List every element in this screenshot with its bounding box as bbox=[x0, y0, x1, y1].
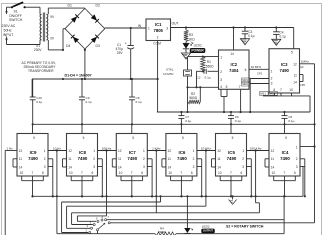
svg-text:2: 2 bbox=[242, 157, 244, 161]
badge POWER bbox=[190, 48, 206, 53]
svg-text:220Ω: 220Ω bbox=[158, 230, 166, 234]
svg-text:CP1: CP1 bbox=[257, 71, 263, 75]
svg-text:5: 5 bbox=[132, 136, 134, 140]
wire 1MHz vertical bbox=[313, 64, 315, 223]
svg-text:INPUT: INPUT bbox=[3, 33, 14, 37]
svg-text:11: 11 bbox=[68, 157, 72, 161]
svg-text:12: 12 bbox=[293, 62, 297, 66]
wire IC4 pin5 supply stub bbox=[284, 124, 286, 133]
ground below C3 bbox=[240, 39, 249, 45]
capacitor C9 0.1u bbox=[79, 78, 92, 124]
capacitor C7 0.1u bbox=[178, 112, 191, 124]
wire R4 to LED2 bbox=[176, 233, 187, 235]
svg-text:2: 2 bbox=[44, 157, 46, 161]
wire IC2 pin2 bbox=[202, 70, 219, 72]
wire C2 to pin3 node bbox=[195, 71, 197, 88]
svg-text:SWITCH: SWITCH bbox=[9, 18, 23, 22]
svg-text:1MHz: 1MHz bbox=[301, 60, 310, 64]
svg-text:10: 10 bbox=[69, 171, 73, 175]
wire IC9 bottom bracket bbox=[22, 176, 44, 197]
diode D3 bbox=[85, 29, 105, 49]
svg-text:D1-D4 = 1N4007: D1-D4 = 1N4007 bbox=[65, 74, 92, 78]
svg-text:C2: C2 bbox=[197, 75, 201, 79]
wire 1 KHz net bbox=[147, 146, 166, 151]
svg-text:10: 10 bbox=[119, 171, 123, 175]
resistor R3 1K bbox=[184, 28, 195, 42]
wire 10 KHz net bbox=[197, 146, 216, 151]
wire IC5 MR pins to rail bbox=[247, 159, 253, 198]
counter IC4 7490 bbox=[269, 134, 300, 177]
ground rail bottom bbox=[31, 195, 303, 197]
svg-text:14: 14 bbox=[293, 80, 297, 84]
wire 1 Hz output bbox=[5, 146, 17, 235]
svg-text:2: 2 bbox=[93, 157, 95, 161]
svg-text:10: 10 bbox=[218, 171, 222, 175]
capacitor C4 0.1u bbox=[273, 28, 286, 40]
resistor R1 560 bbox=[201, 57, 215, 72]
svg-text:230V: 230V bbox=[34, 48, 43, 52]
svg-text:11: 11 bbox=[168, 157, 172, 161]
svg-text:R1: R1 bbox=[207, 60, 211, 64]
wire IC4 MR pins to rail bbox=[300, 159, 306, 198]
wire IC3 MR pins to ground bbox=[249, 79, 269, 114]
svg-text:12: 12 bbox=[68, 149, 72, 153]
svg-text:10: 10 bbox=[20, 171, 24, 175]
wire IC6 MR pins to rail bbox=[197, 159, 203, 198]
wire LED2 ground return bbox=[187, 196, 284, 233]
svg-text:D3: D3 bbox=[96, 44, 100, 48]
wire secondary 9V to bridge bbox=[48, 8, 85, 13]
wire IC4 bottom bracket bbox=[274, 176, 296, 197]
wire bridge DC+ to IC1 bbox=[105, 27, 146, 29]
svg-text:2: 2 bbox=[193, 157, 195, 161]
svg-text:11: 11 bbox=[294, 73, 298, 77]
wire 1kHz tap bbox=[72, 151, 260, 225]
svg-text:10 KHz: 10 KHz bbox=[201, 146, 212, 150]
wire IC2 pins 4,5 to ground bbox=[221, 89, 227, 113]
svg-text:12: 12 bbox=[271, 149, 275, 153]
svg-text:10 MHz: 10 MHz bbox=[251, 65, 262, 69]
wire 100 KHz net bbox=[247, 146, 270, 151]
svg-text:6: 6 bbox=[245, 68, 247, 72]
svg-text:50Hz: 50Hz bbox=[4, 29, 12, 33]
svg-text:0.1µ: 0.1µ bbox=[205, 75, 211, 79]
svg-text:10: 10 bbox=[289, 88, 293, 92]
wire 100Hz tap bbox=[77, 151, 106, 222]
counter IC3 7490 bbox=[269, 49, 300, 93]
wire crystal bottom bbox=[186, 76, 188, 113]
counter IC6 7490 bbox=[166, 134, 197, 177]
svg-text:TRANSFORMER: TRANSFORMER bbox=[28, 69, 54, 73]
svg-text:D1: D1 bbox=[68, 4, 72, 8]
svg-text:IC7: IC7 bbox=[129, 150, 136, 155]
svg-text:7490: 7490 bbox=[280, 156, 290, 161]
svg-text:560Ω: 560Ω bbox=[206, 64, 214, 68]
svg-text:10 Hz: 10 Hz bbox=[53, 146, 62, 150]
node 230V AC input bbox=[2, 7, 16, 44]
wire IC4 pin11-14 bracket bbox=[265, 159, 269, 167]
svg-text:100 Hz: 100 Hz bbox=[102, 146, 112, 150]
wire IC9 MR pins to rail bbox=[48, 159, 54, 198]
svg-text:IC9: IC9 bbox=[30, 150, 37, 155]
wire secondary 0V to bridge AC2 bbox=[48, 29, 65, 51]
wire +5V to IC2 pin14 bbox=[233, 28, 235, 51]
svg-text:5: 5 bbox=[291, 51, 293, 55]
svg-text:10: 10 bbox=[168, 171, 172, 175]
wire IC8 pin11-14 bracket bbox=[63, 159, 67, 167]
svg-text:MR2: MR2 bbox=[242, 82, 248, 86]
capacitor C3 0.1u bbox=[242, 28, 255, 39]
svg-text:7: 7 bbox=[230, 171, 232, 175]
svg-text:7: 7 bbox=[131, 171, 133, 175]
counter IC7 7490 bbox=[116, 134, 147, 177]
capacitor C5 0.1u bbox=[282, 112, 295, 124]
svg-text:1KΩ: 1KΩ bbox=[188, 38, 195, 42]
wire IC2 pin6 to IC3, 10 MHz bbox=[249, 65, 269, 69]
svg-text:IC2: IC2 bbox=[231, 62, 238, 67]
wire IC7 MR pins to rail bbox=[147, 159, 153, 198]
svg-text:1: 1 bbox=[296, 146, 298, 150]
svg-text:7: 7 bbox=[284, 171, 286, 175]
counter IC8 7490 bbox=[67, 134, 98, 177]
svg-text:IC1: IC1 bbox=[155, 22, 162, 27]
svg-text:R3: R3 bbox=[189, 33, 193, 37]
wire bridge DC- to ground rail bbox=[84, 49, 86, 80]
wire IC6 bottom bracket bbox=[171, 176, 193, 197]
svg-text:1 KHz: 1 KHz bbox=[152, 146, 161, 150]
svg-text:14: 14 bbox=[19, 166, 23, 170]
label CP1 CP0 bbox=[257, 65, 306, 87]
wire IC5 pin11-14 bracket bbox=[212, 159, 216, 167]
svg-text:4: 4 bbox=[220, 85, 222, 89]
svg-text:7: 7 bbox=[180, 171, 182, 175]
svg-text:OUT: OUT bbox=[172, 22, 179, 26]
wire IC6 pin5 supply stub bbox=[180, 124, 182, 133]
svg-text:2: 2 bbox=[271, 76, 273, 80]
ground below C4 bbox=[272, 39, 281, 45]
wire IC1 COM to ground bbox=[157, 41, 159, 113]
svg-text:6: 6 bbox=[92, 171, 94, 175]
wire IC3 pin12 1MHz out bbox=[300, 60, 315, 64]
capacitor C6 0.1u bbox=[228, 112, 241, 124]
capacitor C2 0.1u bbox=[197, 69, 211, 80]
svg-text:5: 5 bbox=[33, 136, 35, 140]
regulator IC1 7805 bbox=[138, 19, 179, 46]
wire IC5 pin5 supply stub bbox=[230, 124, 232, 133]
svg-text:2: 2 bbox=[296, 157, 298, 161]
svg-text:0.1µ: 0.1µ bbox=[248, 34, 254, 38]
svg-text:14: 14 bbox=[118, 166, 122, 170]
diode D1 bbox=[65, 4, 85, 29]
wire 100kHz tap bbox=[256, 151, 260, 213]
+5V rail bottom bbox=[32, 123, 315, 125]
svg-text:1: 1 bbox=[44, 149, 46, 153]
svg-text:11: 11 bbox=[19, 157, 23, 161]
svg-text:10: 10 bbox=[272, 171, 276, 175]
svg-text:11: 11 bbox=[118, 157, 122, 161]
svg-text:12: 12 bbox=[168, 149, 172, 153]
svg-text:0.1µ: 0.1µ bbox=[36, 100, 42, 104]
label D1-D4 value bbox=[65, 74, 92, 78]
svg-text:7490: 7490 bbox=[127, 156, 137, 161]
svg-text:6: 6 bbox=[42, 171, 44, 175]
wire 10Hz tap bbox=[57, 151, 98, 234]
wire IC3 pin11-14 bracket bbox=[300, 75, 304, 82]
wire switch contact 6 long bbox=[107, 219, 285, 221]
svg-text:0.1µ: 0.1µ bbox=[288, 119, 294, 123]
svg-text:IC4: IC4 bbox=[282, 150, 289, 155]
svg-text:1: 1 bbox=[143, 149, 145, 153]
diode D4 bbox=[65, 29, 85, 49]
svg-text:14: 14 bbox=[68, 166, 72, 170]
svg-text:14: 14 bbox=[271, 166, 275, 170]
label MR1 MR2 bbox=[242, 78, 251, 86]
svg-text:230V AC: 230V AC bbox=[2, 24, 16, 28]
svg-text:2: 2 bbox=[220, 70, 222, 74]
rotary switch S2 bbox=[85, 215, 110, 233]
wire IC3 MS pins and gnd to rail bbox=[263, 93, 310, 112]
wire 10 Hz net bbox=[48, 146, 67, 151]
wire +5V to IC3 pin5 bbox=[293, 28, 295, 49]
wire 10kHz tap bbox=[67, 151, 206, 229]
svg-text:12: 12 bbox=[217, 149, 221, 153]
LED1 bbox=[183, 42, 202, 49]
svg-text:3: 3 bbox=[242, 165, 244, 169]
svg-text:7: 7 bbox=[280, 88, 282, 92]
wire +5V rail bbox=[171, 26, 294, 28]
svg-text:7: 7 bbox=[239, 85, 241, 89]
svg-text:7: 7 bbox=[81, 171, 83, 175]
svg-text:Q0: Q0 bbox=[300, 65, 304, 69]
svg-text:3: 3 bbox=[296, 165, 298, 169]
svg-text:14: 14 bbox=[168, 166, 172, 170]
wire IC7 pin11-14 bracket bbox=[112, 159, 116, 167]
svg-text:0.1µ: 0.1µ bbox=[280, 35, 286, 39]
wire IC5 bottom bracket bbox=[220, 176, 242, 197]
svg-text:5: 5 bbox=[83, 136, 85, 140]
svg-text:14: 14 bbox=[230, 52, 234, 56]
svg-text:14: 14 bbox=[217, 166, 221, 170]
svg-text:5: 5 bbox=[285, 136, 287, 140]
wire IC9 pin5 supply stub bbox=[32, 124, 34, 133]
svg-text:3: 3 bbox=[193, 165, 195, 169]
svg-text:12: 12 bbox=[19, 149, 23, 153]
svg-text:7: 7 bbox=[32, 171, 34, 175]
diode D2 bbox=[85, 4, 105, 29]
wire IC4 pin1 input 1MHz bbox=[300, 146, 315, 148]
crystal XTAL 10MHz bbox=[163, 57, 192, 76]
svg-text:1: 1 bbox=[220, 55, 222, 59]
wire rail to IC4 MR riser bbox=[302, 167, 304, 197]
wire switch contact 7 to 1MHz bbox=[110, 222, 314, 224]
resistor R4 220 bbox=[155, 227, 176, 236]
svg-text:S2 = ROTARY SWITCH: S2 = ROTARY SWITCH bbox=[226, 225, 264, 229]
ground rail left bbox=[32, 78, 158, 80]
wire IC6 pin11-14 bracket bbox=[162, 159, 166, 167]
svg-text:1 Hz: 1 Hz bbox=[6, 146, 13, 150]
LED2 bbox=[184, 195, 210, 234]
wire 100 Hz net bbox=[98, 146, 116, 151]
svg-text:3: 3 bbox=[166, 27, 168, 31]
svg-text:MS1: MS1 bbox=[260, 92, 266, 96]
wire IC8 bottom bracket bbox=[71, 176, 93, 197]
svg-text:IC8: IC8 bbox=[79, 150, 86, 155]
svg-text:LED1: LED1 bbox=[194, 44, 202, 48]
svg-text:1: 1 bbox=[242, 149, 244, 153]
wire IC8 pin5 supply stub bbox=[81, 124, 83, 133]
svg-text:2: 2 bbox=[157, 36, 159, 40]
wire IC9 pin11-14 bracket bbox=[13, 159, 17, 167]
wire mains to primary bbox=[7, 7, 41, 44]
svg-text:11: 11 bbox=[217, 157, 221, 161]
svg-text:POWER: POWER bbox=[191, 48, 204, 52]
capacitor C8 0.1u bbox=[129, 78, 142, 124]
wire ground feed to switch bbox=[62, 195, 162, 232]
svg-text:LED2: LED2 bbox=[202, 224, 210, 228]
wire IC7 pin5 supply stub bbox=[131, 124, 133, 133]
svg-text:IC6: IC6 bbox=[178, 150, 185, 155]
svg-text:3: 3 bbox=[271, 81, 273, 85]
capacitor C10 0.1u bbox=[30, 79, 43, 124]
svg-text:3: 3 bbox=[220, 78, 222, 82]
svg-text:6: 6 bbox=[141, 171, 143, 175]
counter IC9 7490 bbox=[17, 134, 48, 177]
svg-text:D2: D2 bbox=[96, 4, 100, 8]
ground arrow on rail bbox=[229, 196, 237, 204]
badge LED2 label bbox=[201, 229, 215, 234]
ground below LED1 bbox=[181, 49, 190, 59]
wire oscillator to IC2 pin3/4 bbox=[188, 86, 219, 88]
wire switch pole to R4 bbox=[98, 231, 156, 234]
svg-text:7490: 7490 bbox=[28, 156, 38, 161]
svg-text:3: 3 bbox=[93, 165, 95, 169]
svg-text:1: 1 bbox=[148, 27, 150, 31]
op IC2 7404 bbox=[219, 50, 250, 89]
wire IC2 pin7 to ground bbox=[240, 89, 242, 113]
svg-text:5: 5 bbox=[226, 85, 228, 89]
svg-text:0.1µ: 0.1µ bbox=[185, 119, 191, 123]
svg-text:7490: 7490 bbox=[78, 156, 88, 161]
svg-text:25V: 25V bbox=[117, 51, 124, 55]
svg-text:6: 6 bbox=[294, 171, 296, 175]
wire IC8 MR pins to rail bbox=[98, 159, 104, 198]
svg-text:6: 6 bbox=[191, 171, 193, 175]
svg-text:+: + bbox=[125, 42, 127, 46]
svg-text:12: 12 bbox=[118, 149, 122, 153]
svg-text:7490: 7490 bbox=[227, 156, 237, 161]
svg-text:10 MHz: 10 MHz bbox=[163, 72, 174, 76]
svg-text:5: 5 bbox=[232, 136, 234, 140]
svg-text:560Ω: 560Ω bbox=[189, 96, 197, 100]
svg-text:0.1µ: 0.1µ bbox=[136, 100, 142, 104]
svg-text:CP0: CP0 bbox=[300, 83, 306, 87]
svg-text:3: 3 bbox=[143, 165, 145, 169]
label S2 rotary switch bbox=[226, 225, 264, 229]
svg-text:1: 1 bbox=[93, 149, 95, 153]
svg-text:IC5: IC5 bbox=[228, 150, 235, 155]
resistor R2 560 bbox=[188, 86, 201, 104]
svg-text:6: 6 bbox=[241, 171, 243, 175]
svg-text:1: 1 bbox=[271, 69, 273, 73]
svg-text:0.1µ: 0.1µ bbox=[86, 100, 92, 104]
svg-text:3: 3 bbox=[44, 165, 46, 169]
wire IC7 bottom bracket bbox=[121, 176, 143, 197]
label transformer description bbox=[22, 61, 57, 73]
ground rail right bbox=[157, 111, 310, 113]
svg-text:7490: 7490 bbox=[280, 68, 290, 73]
svg-text:1: 1 bbox=[193, 149, 195, 153]
svg-text:D4: D4 bbox=[66, 44, 70, 48]
svg-text:2: 2 bbox=[143, 157, 145, 161]
svg-text:OUTPUT: OUTPUT bbox=[203, 230, 213, 233]
svg-text:100 KHz: 100 KHz bbox=[250, 146, 262, 150]
svg-text:7805: 7805 bbox=[154, 28, 164, 33]
svg-text:7404: 7404 bbox=[229, 68, 239, 73]
label MS1 MS2 bbox=[260, 92, 278, 96]
svg-text:0.1µ: 0.1µ bbox=[235, 119, 241, 123]
svg-text:7490: 7490 bbox=[177, 156, 187, 161]
wire IC2 pin1 feedback bbox=[188, 56, 219, 58]
capacitor C1 470u 25V bbox=[116, 27, 135, 80]
svg-text:11: 11 bbox=[271, 157, 275, 161]
svg-text:IC3: IC3 bbox=[281, 62, 288, 67]
counter IC5 7490 bbox=[216, 134, 247, 177]
svg-text:5: 5 bbox=[182, 136, 184, 140]
svg-text:MR1: MR1 bbox=[242, 78, 248, 82]
transformer X1 bbox=[34, 13, 55, 53]
switch S1 bbox=[7, 2, 41, 22]
